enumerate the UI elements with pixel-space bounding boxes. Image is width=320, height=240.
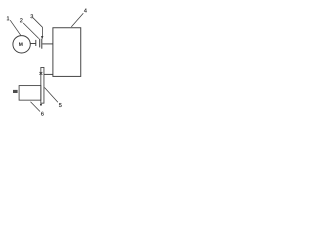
leader line 1 — [10, 20, 21, 35]
pivot x mark — [40, 72, 43, 75]
motor letter M — [19, 42, 23, 45]
shaft wire coupling to housing — [42, 43, 53, 45]
box 6 rectangle — [19, 86, 41, 101]
motor M1 circle — [13, 36, 30, 53]
leader line 4 — [71, 13, 83, 27]
housing unit 4 rectangle — [53, 28, 81, 77]
column 5 thin rectangle — [41, 67, 44, 103]
pivot nub below column — [40, 104, 42, 106]
arrowhead of leader 3 — [41, 36, 44, 39]
connector wire column to housing — [44, 73, 53, 75]
leader line 6 — [31, 102, 41, 112]
coupling bar A — [39, 39, 41, 48]
leader line 5 — [45, 88, 58, 103]
label 2 — [20, 18, 23, 22]
shaft wire motor to coupling — [30, 43, 36, 45]
label 5 — [59, 103, 62, 107]
coupling bar B — [41, 39, 43, 49]
label 1 — [7, 16, 9, 20]
black square mount — [13, 90, 18, 93]
label 6 — [41, 112, 44, 116]
label 3 — [30, 14, 33, 18]
coupling tick left — [35, 40, 37, 46]
label 4 — [84, 9, 87, 13]
leader line 3 with elbow — [33, 18, 42, 37]
leader line 2 — [23, 23, 39, 39]
